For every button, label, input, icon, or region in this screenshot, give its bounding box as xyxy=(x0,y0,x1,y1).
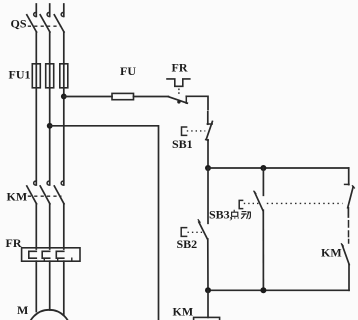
wire coil feed xyxy=(207,290,209,317)
SB3 button bracket xyxy=(239,200,242,208)
svg-text:SB1: SB1 xyxy=(172,137,193,151)
wire L3 FR to motor xyxy=(63,261,65,315)
coil KM rectangle xyxy=(194,317,220,320)
wire L2 top lead xyxy=(49,4,51,16)
FR heater element phase 3 xyxy=(56,251,64,258)
glyph dong (move) xyxy=(241,212,251,219)
dashed lead segment 2 xyxy=(348,231,350,237)
FR actuator dotted link xyxy=(178,89,180,97)
KM pole 3 blade xyxy=(54,186,64,204)
QS pole 2 contact hook xyxy=(47,12,50,16)
fuse FU (control) xyxy=(112,93,134,99)
SB1 actuator dotted link xyxy=(187,130,206,132)
SB2 blade tip serif xyxy=(198,220,200,222)
wire L2 KM to FR xyxy=(49,204,51,249)
QS mechanical link (dashed) xyxy=(28,25,62,27)
wire below NC contact xyxy=(347,208,349,217)
contactor KM pole 3 hook xyxy=(61,181,64,185)
FR heater stub 1 xyxy=(43,258,45,261)
FR NC contact crossbar xyxy=(185,96,187,103)
svg-text:SB2: SB2 xyxy=(177,237,198,251)
SB2 upper lead xyxy=(207,168,209,223)
contactor KM pole 1 top lead xyxy=(34,181,37,185)
motor M circle xyxy=(28,310,71,320)
wire L3 QS to FU1 xyxy=(63,32,65,64)
FR NC contact blade xyxy=(168,97,187,104)
wire bottom rail xyxy=(208,289,349,291)
FR blade pivot blob xyxy=(177,100,180,103)
KM mechanical link (dashed) xyxy=(28,195,62,197)
contactor KM pole 2 hook xyxy=(47,181,50,185)
SB3 actuator dotted link left xyxy=(244,202,259,204)
wire L2 QS to FU1 xyxy=(49,32,51,64)
svg-text:FU1: FU1 xyxy=(9,68,31,82)
svg-text:FR: FR xyxy=(6,236,22,250)
wire control return rail xyxy=(50,126,159,320)
svg-text:FR: FR xyxy=(172,61,188,75)
SB3 NC crossbar (right branch) xyxy=(345,183,349,185)
wire L3 top lead xyxy=(63,4,65,16)
fuse FU1 phase 1 xyxy=(32,64,40,88)
svg-text:KM: KM xyxy=(7,189,28,203)
SB3 NO blade xyxy=(255,192,263,210)
wire FR contact to corner xyxy=(186,96,208,109)
node B (middle branch junction) xyxy=(260,165,266,171)
wire L2 FU1 to KM xyxy=(49,64,51,185)
wire SB1 to node A xyxy=(207,140,209,168)
dashed lead segment 1 xyxy=(348,221,350,227)
KM pole 2 blade xyxy=(40,186,50,204)
wire SB3 lower lead xyxy=(262,210,264,290)
svg-text:KM: KM xyxy=(173,304,194,318)
QS pole 2 blade xyxy=(40,15,50,32)
QS pole 1 blade xyxy=(27,15,37,32)
SB1 blade foot serif xyxy=(206,139,209,142)
wire SB2 lower lead xyxy=(207,239,209,290)
KM aux contact top tick xyxy=(348,240,350,244)
SB1 upper lead lower segment xyxy=(207,112,209,124)
SB1 NC crossbar xyxy=(207,123,212,125)
SB2 button bracket xyxy=(181,228,186,237)
svg-text:FU: FU xyxy=(120,64,136,78)
glyph dian (point) xyxy=(231,210,239,218)
svg-text:SB3,: SB3, xyxy=(209,208,233,222)
wire L1 KM to FR xyxy=(35,204,37,249)
node on L2 (control return tap) xyxy=(47,123,53,129)
FR heater stub 2 xyxy=(57,258,59,261)
wire L1 FU1 to KM xyxy=(35,64,37,185)
svg-text:QS: QS xyxy=(11,16,27,30)
SB3 NC blade tip serif xyxy=(352,186,354,188)
KM aux NO blade xyxy=(342,245,349,265)
QS pole 1 contact hook xyxy=(34,12,37,16)
SB1 NC blade xyxy=(206,121,212,139)
thermal relay FR heater box xyxy=(22,248,80,261)
wire L1 QS to FU1 xyxy=(35,32,37,64)
node C (bottom left junction) xyxy=(205,287,211,293)
SB3 upper lead xyxy=(262,168,264,195)
svg-text:M: M xyxy=(17,303,28,317)
wire right branch from rail xyxy=(348,168,350,185)
svg-text:KM: KM xyxy=(321,246,342,260)
wire L1 top lead xyxy=(35,4,37,16)
SB2 actuator dotted link xyxy=(188,231,204,233)
SB3 blade tip serif xyxy=(254,191,256,193)
wire L2 FR to motor xyxy=(49,261,51,310)
node A (left branch junction) xyxy=(205,165,211,171)
KM pole 1 blade xyxy=(27,186,37,204)
wire control top rail left xyxy=(64,96,112,98)
fuse FU1 phase 2 xyxy=(46,64,54,88)
QS pole 3 contact hook xyxy=(61,12,64,16)
FR thermal element symbol (control) xyxy=(167,79,190,86)
wire branch rail top xyxy=(208,167,349,169)
node on L3 (control tap) xyxy=(61,94,67,100)
FR heater stub 3 xyxy=(71,258,73,261)
SB1 button bracket xyxy=(182,127,187,135)
wire L1 FR to motor xyxy=(35,261,37,311)
SB2 NO blade xyxy=(199,222,208,239)
FR heater element phase 2 xyxy=(42,251,50,258)
wire FU to FR contact xyxy=(134,96,169,98)
wire KM aux to bottom rail xyxy=(348,265,350,291)
KM aux blade tip serif xyxy=(341,244,343,246)
QS pole 3 blade xyxy=(54,15,64,32)
wire L3 KM to FR xyxy=(63,204,65,249)
wire L3 FU1 to KM xyxy=(63,64,65,185)
SB3 NC blade (right branch) xyxy=(348,187,354,208)
node D (bottom middle junction) xyxy=(260,287,266,293)
SB3 actuator dotted link right xyxy=(267,202,343,204)
fuse FU1 phase 3 xyxy=(60,64,68,88)
FR heater element phase 1 xyxy=(29,251,37,258)
